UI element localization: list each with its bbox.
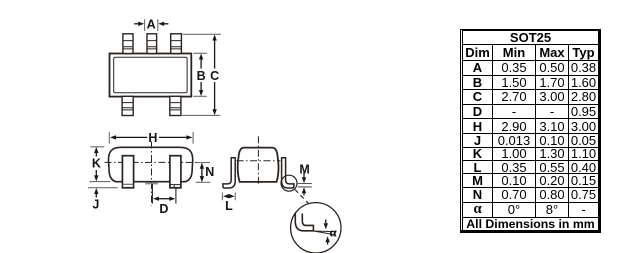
top view pin 5 (bottom row right)	[170, 96, 181, 115]
top view pin 4 (bottom row left)	[122, 96, 133, 115]
top view body	[110, 54, 192, 97]
dimension C arrows	[212, 35, 216, 116]
dimension M ticks	[298, 184, 312, 187]
svg-text:H: H	[148, 131, 157, 145]
front view left lead	[122, 156, 133, 188]
dimension L extension ticks	[222, 193, 235, 201]
side view right lead	[282, 158, 294, 188]
svg-text:C: C	[210, 69, 219, 83]
top view pin 2 (top row middle)	[147, 34, 157, 54]
front view horizontal centerline	[105, 161, 198, 163]
svg-text:B: B	[197, 69, 206, 83]
svg-text:M: M	[299, 162, 309, 176]
svg-text:α: α	[329, 225, 337, 240]
dimension L arrows	[223, 194, 235, 198]
svg-text:N: N	[205, 165, 214, 179]
dimension A extension ticks	[145, 19, 158, 31]
front view vertical centerline	[151, 142, 153, 206]
front view middle back lead tab	[145, 183, 158, 185]
dimension H arrows	[110, 135, 192, 139]
dimension J seating plane line	[88, 187, 118, 189]
dimension B arrows	[199, 54, 203, 97]
side view vertical centerline	[257, 136, 259, 185]
dimension K arrows	[94, 147, 98, 181]
dimension B extension lines	[193, 53, 207, 96]
dimension M arrows	[302, 172, 306, 196]
side view horizontal centerline	[237, 160, 281, 162]
dimension C extension lines	[182, 34, 221, 115]
svg-text:L: L	[225, 199, 233, 213]
top view pin 3 (top row right)	[171, 34, 182, 54]
detail highlight circle on right lead foot	[281, 175, 297, 191]
detail circle	[291, 203, 341, 253]
side view body	[238, 148, 279, 182]
dimension A arrows	[134, 22, 168, 26]
svg-text:D: D	[159, 202, 168, 216]
dimension D arrows	[153, 197, 175, 201]
top view pin 1 (top row left)	[123, 34, 133, 54]
dimension H extension ticks	[109, 132, 193, 144]
top view body inner outline	[114, 57, 187, 93]
detail lead bend	[295, 214, 313, 231]
dimension N arrows	[200, 163, 204, 182]
side view left lead	[223, 158, 235, 188]
svg-text:A: A	[147, 17, 156, 31]
alpha angle reference lines	[310, 231, 337, 235]
dimension N extension lines	[196, 163, 211, 183]
dimension table SOT25	[460, 29, 601, 233]
svg-text:J: J	[92, 198, 99, 212]
dimension K extension lines	[90, 147, 111, 182]
front view right lead	[170, 156, 181, 188]
dimension J arrow	[94, 188, 98, 198]
front view body	[108, 147, 192, 181]
dashed leader line to detail circle	[295, 190, 309, 205]
svg-text:K: K	[92, 157, 101, 171]
alpha angle arrows	[324, 220, 330, 245]
dimension D extension lines	[152, 184, 176, 204]
